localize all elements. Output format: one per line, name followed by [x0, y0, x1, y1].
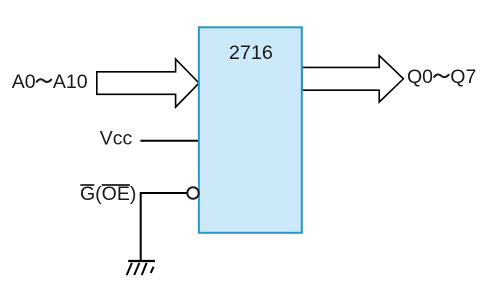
- svg-text:G(OE): G(OE): [80, 183, 136, 205]
- address bus arrow A0-A10: [97, 59, 199, 107]
- svg-text:Vcc: Vcc: [100, 128, 133, 150]
- svg-text:2716: 2716: [229, 42, 273, 64]
- net label A0~A10: [12, 71, 88, 93]
- net label Q0~Q7: [407, 66, 476, 88]
- ground symbol: [127, 261, 155, 275]
- data bus arrow Q0-Q7: [302, 56, 403, 103]
- IC U1 2716 EPROM body: [199, 27, 302, 233]
- svg-text:A0: A0: [12, 71, 36, 93]
- wire G to ground: [141, 193, 187, 261]
- inverter bubble on G pin: [187, 187, 198, 198]
- svg-text:Q7: Q7: [450, 66, 476, 88]
- wire Vcc to pin: [140, 140, 199, 142]
- pin label G(OE) with overlines: [80, 183, 136, 205]
- svg-text:Q0: Q0: [407, 66, 433, 88]
- svg-text:A10: A10: [53, 71, 88, 93]
